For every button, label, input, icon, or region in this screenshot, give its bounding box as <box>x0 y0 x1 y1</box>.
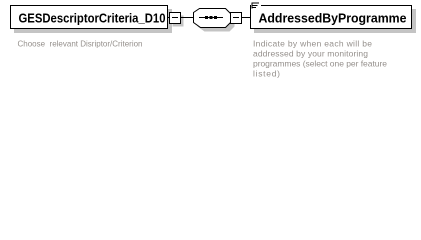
element box AddressedByProgramme <box>251 6 412 29</box>
svg-text:programmes (select one per fea: programmes (select one per feature <box>253 59 387 69</box>
shadow of element box AddressedByProgramme <box>254 9 416 33</box>
wire from handle to sequence compositor <box>181 17 194 19</box>
shadow of element box GESDescriptorCriteria_D10 <box>14 9 172 33</box>
sequence compositor (octagon) <box>194 9 231 28</box>
shadow of sequence compositor <box>198 13 235 32</box>
svg-text:Choose relevant Disriptor/Cri: Choose relevant Disriptor/Criterion <box>18 39 143 49</box>
svg-text:GESDescriptorCriteria_D10: GESDescriptorCriteria_D10 <box>19 11 166 26</box>
collapse handle (minus box) on sequence <box>231 13 242 24</box>
svg-text:AddressedByProgramme: AddressedByProgramme <box>259 11 407 26</box>
svg-text:addressed by your monitoring: addressed by your monitoring <box>253 49 368 59</box>
annotation text for AddressedByProgramme <box>253 39 387 79</box>
wire from sequence to element AddressedByProgramme <box>242 17 251 19</box>
svg-text:Indicate by when each will be: Indicate by when each will be <box>253 39 372 49</box>
annotation icon on AddressedByProgramme <box>251 1 261 9</box>
sequence line with three dots <box>199 17 223 19</box>
collapse handle (minus box) on GESDescriptorCriteria_D10 <box>173 16 184 27</box>
wire from box to collapse handle <box>168 17 170 19</box>
svg-text:listed): listed) <box>253 69 280 79</box>
element box GESDescriptorCriteria_D10 <box>11 6 168 29</box>
